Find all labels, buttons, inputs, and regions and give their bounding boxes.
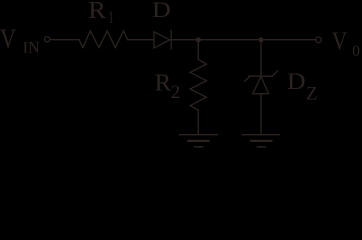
svg-text:R: R bbox=[155, 70, 172, 96]
svg-text:IN: IN bbox=[23, 38, 40, 57]
label VIN bbox=[0, 25, 40, 57]
wire R2 to ground bbox=[197, 110, 199, 134]
resistor R2 bbox=[190, 60, 206, 111]
label R1 bbox=[88, 0, 113, 27]
node B junction dot bbox=[259, 37, 264, 42]
zener bar right tick bbox=[272, 71, 277, 76]
svg-text:0: 0 bbox=[352, 43, 360, 60]
wire R1 to D bbox=[128, 39, 154, 41]
node VIN input terminal bbox=[44, 37, 49, 42]
svg-text:1: 1 bbox=[109, 9, 114, 27]
wire node B down to zener bbox=[260, 41, 262, 76]
wire D to output terminal bbox=[171, 39, 316, 41]
diode D triangle bbox=[154, 32, 170, 48]
node A junction dot bbox=[196, 37, 201, 42]
svg-text:D: D bbox=[152, 0, 171, 23]
svg-text:R: R bbox=[88, 0, 106, 23]
ground (under DZ) bbox=[242, 135, 279, 147]
zener bar left tick bbox=[245, 76, 250, 81]
svg-text:V: V bbox=[0, 25, 16, 55]
node V0 output terminal bbox=[316, 37, 322, 43]
ground (under R2) bbox=[180, 135, 218, 147]
label V0 bbox=[332, 27, 361, 59]
label DZ bbox=[287, 69, 318, 104]
svg-text:D: D bbox=[287, 69, 306, 95]
zener diode DZ triangle bbox=[253, 77, 269, 94]
diode D cathode bar bbox=[170, 31, 172, 49]
label R2 bbox=[155, 70, 181, 103]
wire node A down to R2 bbox=[197, 41, 199, 60]
svg-text:Z: Z bbox=[306, 83, 318, 104]
wire zener to ground bbox=[260, 94, 262, 134]
zener diode DZ cathode bar bbox=[249, 75, 272, 77]
resistor R1 bbox=[79, 31, 128, 48]
svg-text:2: 2 bbox=[171, 82, 181, 103]
wire input terminal to R1 bbox=[50, 39, 79, 41]
svg-text:V: V bbox=[332, 27, 348, 55]
